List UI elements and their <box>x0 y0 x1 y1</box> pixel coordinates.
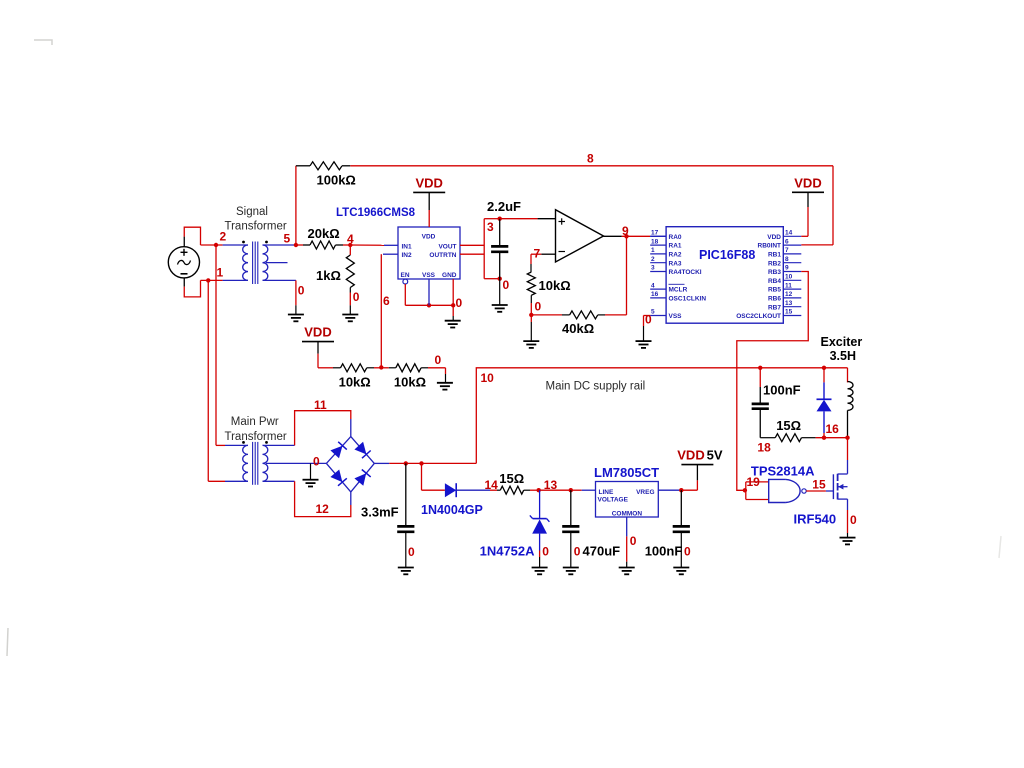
svg-text:15: 15 <box>785 309 793 316</box>
svg-text:17: 17 <box>651 230 659 237</box>
svg-text:16: 16 <box>826 422 840 436</box>
svg-text:14: 14 <box>785 230 793 237</box>
svg-text:0: 0 <box>313 455 320 469</box>
svg-text:EN: EN <box>401 272 410 279</box>
svg-text:IN2: IN2 <box>402 252 413 259</box>
svg-text:10: 10 <box>481 371 495 385</box>
svg-text:7: 7 <box>534 247 541 261</box>
svg-text:RA3: RA3 <box>669 260 682 267</box>
svg-text:PIC16F88: PIC16F88 <box>699 248 755 262</box>
svg-text:2: 2 <box>651 256 655 263</box>
svg-text:RA1: RA1 <box>669 243 682 250</box>
svg-text:9: 9 <box>785 265 789 272</box>
svg-text:0: 0 <box>630 534 637 548</box>
svg-text:1: 1 <box>217 266 224 280</box>
svg-text:VSS: VSS <box>422 272 436 279</box>
svg-text:0: 0 <box>503 278 510 292</box>
svg-text:10: 10 <box>785 274 793 281</box>
svg-text:16: 16 <box>651 291 659 298</box>
svg-text:0: 0 <box>408 545 415 559</box>
svg-text:3.5H: 3.5H <box>830 349 856 363</box>
svg-text:VSS: VSS <box>669 313 683 320</box>
svg-text:15Ω: 15Ω <box>776 418 801 433</box>
svg-text:0: 0 <box>456 296 463 310</box>
svg-text:RB4: RB4 <box>768 278 781 285</box>
svg-text:RB1: RB1 <box>768 252 781 259</box>
svg-text:0: 0 <box>542 545 549 559</box>
svg-text:3: 3 <box>487 220 494 234</box>
svg-text:IRF540: IRF540 <box>794 512 837 527</box>
svg-text:RB5: RB5 <box>768 287 781 294</box>
svg-text:LTC1966CMS8: LTC1966CMS8 <box>336 207 416 219</box>
svg-text:0: 0 <box>353 290 360 304</box>
svg-text:3.3mF: 3.3mF <box>361 505 399 520</box>
svg-text:VOUT: VOUT <box>438 243 456 250</box>
svg-text:LM7805CT: LM7805CT <box>594 465 659 480</box>
svg-text:0: 0 <box>645 313 652 327</box>
svg-text:TPS2814A: TPS2814A <box>751 464 815 479</box>
svg-text:14: 14 <box>485 478 499 492</box>
svg-text:1: 1 <box>651 247 655 254</box>
svg-text:4: 4 <box>651 282 655 289</box>
svg-text:RA0: RA0 <box>669 234 682 241</box>
svg-text:VDD: VDD <box>677 448 704 463</box>
svg-text:9: 9 <box>622 224 629 238</box>
svg-text:VDD: VDD <box>415 175 442 190</box>
svg-text:1N4004GP: 1N4004GP <box>421 503 483 517</box>
svg-text:GND: GND <box>442 272 457 279</box>
svg-text:15Ω: 15Ω <box>499 471 524 486</box>
svg-text:RA4TOCKI: RA4TOCKI <box>669 269 702 276</box>
svg-text:VDD: VDD <box>304 325 331 340</box>
svg-text:8: 8 <box>785 256 789 263</box>
svg-text:VDD: VDD <box>422 234 436 241</box>
svg-text:LINE: LINE <box>599 489 614 496</box>
svg-text:2.2uF: 2.2uF <box>487 199 521 214</box>
svg-text:470uF: 470uF <box>583 544 621 559</box>
svg-text:11: 11 <box>314 398 327 412</box>
svg-text:Main Pwr: Main Pwr <box>231 416 279 428</box>
svg-text:VOLTAGE: VOLTAGE <box>598 496 629 503</box>
svg-text:1N4752A: 1N4752A <box>480 544 536 559</box>
svg-text:10kΩ: 10kΩ <box>539 278 571 293</box>
svg-text:1kΩ: 1kΩ <box>316 268 341 283</box>
svg-text:6: 6 <box>383 294 390 308</box>
svg-text:OSC1CLKIN: OSC1CLKIN <box>669 296 707 303</box>
svg-text:0: 0 <box>435 353 442 367</box>
svg-text:13: 13 <box>785 300 793 307</box>
svg-text:VDD: VDD <box>767 234 781 241</box>
svg-text:100nF: 100nF <box>645 544 683 559</box>
svg-text:8: 8 <box>587 152 594 166</box>
svg-text:11: 11 <box>785 282 792 289</box>
svg-text:100nF: 100nF <box>763 383 801 398</box>
svg-text:0: 0 <box>684 545 691 559</box>
svg-text:Transformer: Transformer <box>225 431 287 443</box>
svg-text:MCLR: MCLR <box>669 287 688 294</box>
svg-text:15: 15 <box>812 478 826 492</box>
svg-text:Transformer: Transformer <box>225 221 287 233</box>
svg-text:12: 12 <box>316 502 330 516</box>
svg-text:RB3: RB3 <box>768 269 781 276</box>
svg-text:20kΩ: 20kΩ <box>308 226 340 241</box>
svg-text:RB0INT: RB0INT <box>758 243 782 250</box>
svg-text:Exciter: Exciter <box>821 335 863 349</box>
svg-text:VDD: VDD <box>794 175 821 190</box>
svg-text:18: 18 <box>651 238 659 245</box>
svg-text:RB2: RB2 <box>768 260 781 267</box>
svg-text:RB7: RB7 <box>768 304 781 311</box>
svg-text:0: 0 <box>298 284 305 298</box>
svg-text:6: 6 <box>785 238 789 245</box>
svg-text:Main DC supply rail: Main DC supply rail <box>546 381 646 393</box>
svg-text:4: 4 <box>347 232 354 246</box>
svg-text:5: 5 <box>284 232 291 246</box>
svg-text:0: 0 <box>574 545 581 559</box>
svg-text:COMMON: COMMON <box>612 510 643 517</box>
svg-text:7: 7 <box>785 247 789 254</box>
svg-text:VREG: VREG <box>636 489 654 496</box>
svg-text:0: 0 <box>850 513 857 527</box>
svg-text:IN1: IN1 <box>402 243 413 250</box>
svg-text:100kΩ: 100kΩ <box>317 173 356 188</box>
svg-text:18: 18 <box>757 441 771 455</box>
svg-text:10kΩ: 10kΩ <box>394 375 426 390</box>
svg-text:OSC2CLKOUT: OSC2CLKOUT <box>736 313 781 320</box>
svg-text:RB6: RB6 <box>768 296 781 303</box>
svg-text:3: 3 <box>651 265 655 272</box>
svg-text:40kΩ: 40kΩ <box>562 321 594 336</box>
svg-text:RA2: RA2 <box>669 252 682 259</box>
svg-text:12: 12 <box>785 291 793 298</box>
svg-text:10kΩ: 10kΩ <box>339 375 371 390</box>
svg-text:5V: 5V <box>707 448 723 463</box>
svg-text:0: 0 <box>535 300 542 314</box>
svg-text:Signal: Signal <box>236 206 268 218</box>
svg-text:OUTRTN: OUTRTN <box>429 252 456 259</box>
